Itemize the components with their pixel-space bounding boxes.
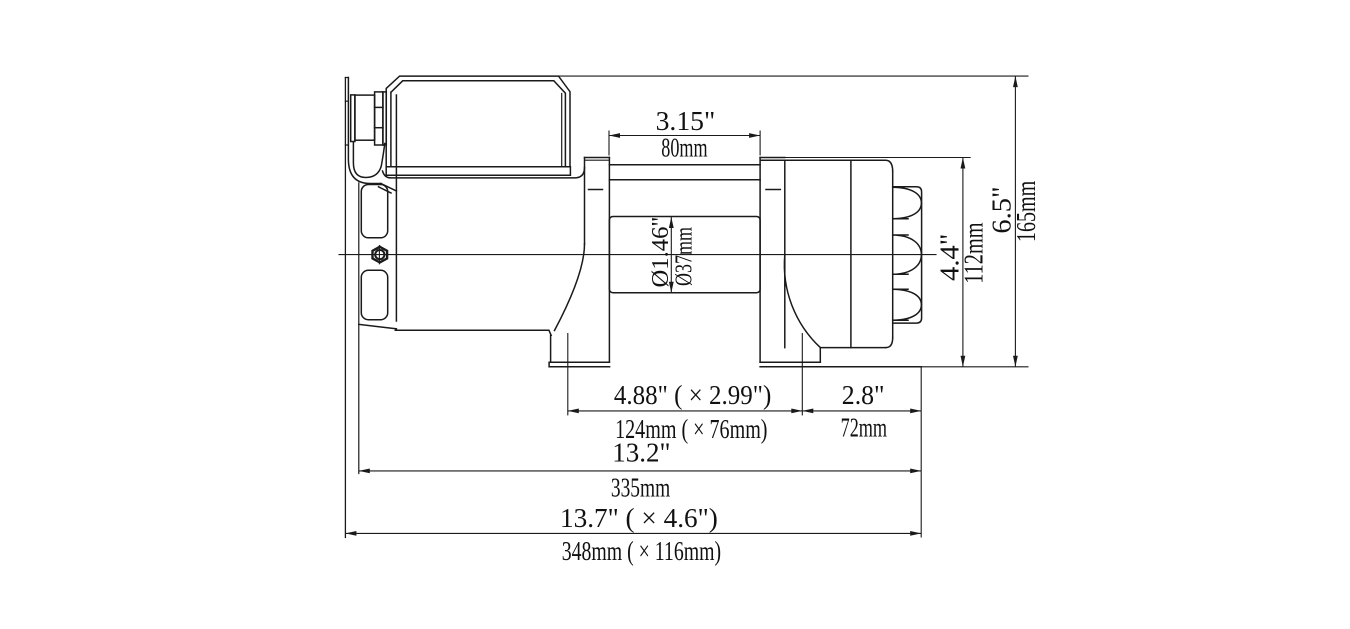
dim 13.2in line [359,470,921,472]
rope anchor clamp flange outer strip [383,92,386,145]
right common extension line [920,367,922,538]
gearbox cover seam [850,160,852,347]
hex bolt circle [375,250,384,259]
arrow 3.15 left [609,133,620,138]
arrow 13.7 right [910,531,921,536]
arrow 3.15 right [749,133,760,138]
left support plate top inner line [585,159,609,161]
dim 4.4in top extension [785,157,971,159]
svg-text:335mm: 335mm [611,473,670,503]
svg-text:112mm: 112mm [959,222,989,283]
arrow 6.5 top [1013,76,1018,87]
dim 4.88in/2.8in extension middle [801,333,803,415]
bracket panel left edge [358,183,360,474]
mounting plate outer edge (left) [344,78,346,538]
bolt vertical centerline [378,246,380,264]
roller housing outline [893,187,922,323]
arrow 4.4 top [961,158,966,169]
right support tie-rod dash [766,189,780,191]
arrow 2.8 right [910,409,921,414]
roller 1 arc [893,187,922,219]
arrow diameter down [669,282,674,293]
motor housing box outer [386,76,570,167]
arrow 13.2 left [359,469,370,474]
left foot plate [549,362,610,367]
arrow 13.2 right [910,469,921,474]
bracket recessed pocket B [361,270,387,319]
motor housing box inset [391,81,566,167]
right support plate top edge [760,157,785,159]
rope anchor clamp flange [375,92,383,145]
arrow 4.88 right [791,409,802,414]
left foot left edge [550,335,552,362]
motor bracket inner U pocket [353,142,384,178]
right support foot step [819,348,821,363]
left support tie-rod dash [589,189,603,191]
motor housing box seam [561,94,563,167]
rope anchor clamp block [355,95,375,140]
left support plate left edge [584,158,586,245]
svg-text:72mm: 72mm [841,413,888,443]
dim 3.15in/80mm line [609,135,760,137]
dim 4.88in extension left [567,333,569,415]
mounting plate tick upper [345,100,348,102]
gearbox left edge [784,160,786,347]
gearbox bottom right corner [886,338,893,348]
svg-text:13.7" ( × 4.6"): 13.7" ( × 4.6") [560,503,718,533]
rope anchor clamp strip [351,95,355,142]
motor body top edge with fillet [383,168,585,178]
gearbox bottom edge [820,347,886,349]
arrow 2.8 left [802,409,813,414]
svg-text:4.88" ( × 2.99"): 4.88" ( × 2.99") [614,380,771,410]
arrow 4.4 bottom [961,356,966,367]
svg-text:80mm: 80mm [661,133,707,163]
bottom mounting plate [760,366,921,368]
arrow diameter up [669,217,674,228]
bottom common extension [921,366,1028,368]
arrow 13.7 left [345,531,356,536]
roller 3 arc [893,289,922,320]
dim 3.15in/80mm extension left [608,131,610,156]
arrow 6.5 bottom [1013,356,1018,367]
dim 13.7in line [345,532,921,534]
drum flange inner line [609,179,760,181]
main centerline [339,254,936,256]
svg-text:2.8": 2.8" [842,380,885,410]
dim drum diameter line [670,217,672,293]
drum barrel [609,217,760,293]
svg-text:165mm: 165mm [1011,181,1041,242]
arrow 4.88 left [568,409,579,414]
right support flare curve [784,255,820,348]
svg-text:13.2": 13.2" [612,438,670,468]
dim 6.5in top extension [559,75,1029,77]
bracket bevel edge upper [381,184,396,192]
clamp flange divider lower [375,127,383,129]
right support/gearbox top inner line [761,160,893,171]
bracket recessed pocket A [361,185,387,238]
svg-text:Ø37mm: Ø37mm [670,227,697,286]
motor housing flange lower line [386,167,570,176]
mounting plate top cap [345,77,348,79]
dim 4.88in line [568,410,803,412]
drum flange top edge [609,164,760,166]
svg-text:348mm ( × 116mm): 348mm ( × 116mm) [562,536,721,566]
bracket panel right edge [395,95,397,321]
dimension group [345,76,1028,537]
gearbox right edge [892,172,894,338]
mounting plate tick lower [345,144,348,146]
right support plate left edge [759,158,761,363]
dim 4.4in line [962,158,964,367]
roller 2 arc [893,235,922,274]
motor body bottom edge [395,330,551,335]
dim 6.5in line [1014,76,1016,367]
motor bracket outer U profile [348,78,381,184]
bracket bevel edge lower [379,187,392,193]
left support plate right edge [608,158,610,363]
left support plate top edge [585,157,610,159]
hex bolt [373,247,388,263]
dim 2.8in line [802,410,921,412]
bracket bottom slab bevel [359,324,397,328]
dim 3.15in/80mm extension right [759,131,761,156]
clamp flange divider upper [375,106,383,108]
right support foot top [760,361,820,363]
left support plate flare curve [555,244,585,331]
